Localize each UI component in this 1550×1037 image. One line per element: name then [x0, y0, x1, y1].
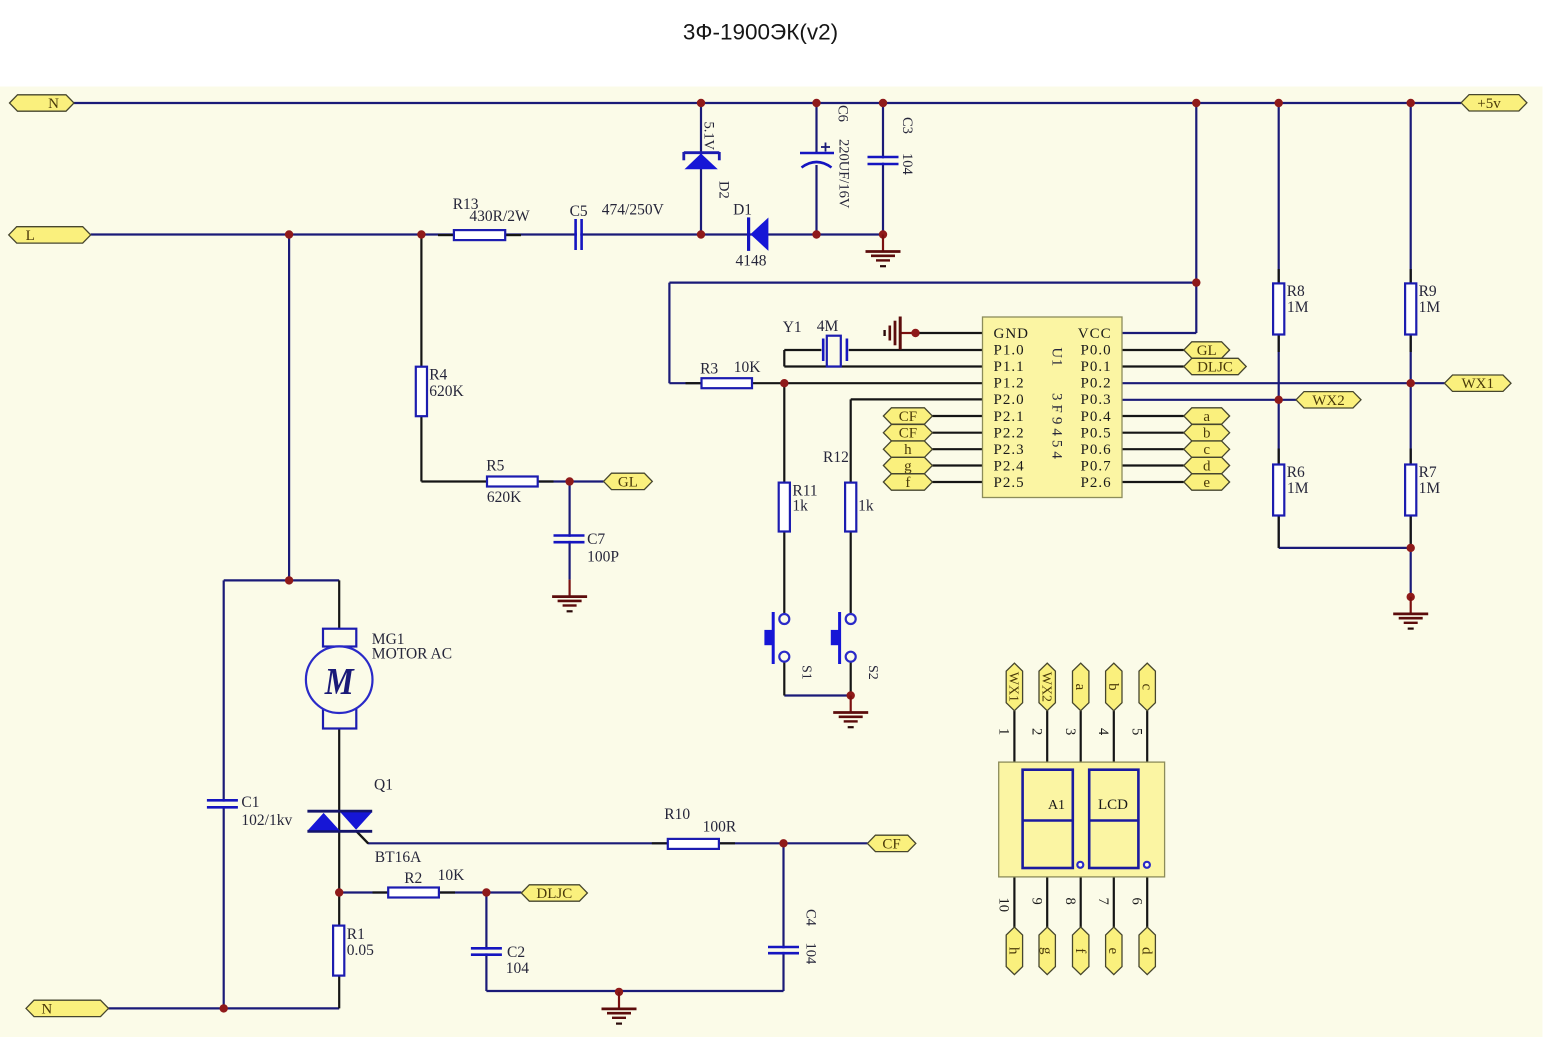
svg-text:h: h	[904, 442, 912, 458]
svg-text:P1.2: P1.2	[994, 376, 1025, 392]
svg-text:P0.6: P0.6	[1081, 442, 1112, 458]
svg-text:10: 10	[996, 898, 1012, 913]
svg-text:3Ф-1900ЭК(v2): 3Ф-1900ЭК(v2)	[683, 20, 838, 45]
svg-text:4: 4	[1095, 728, 1111, 736]
svg-text:VCC: VCC	[1078, 326, 1112, 342]
svg-text:P2.5: P2.5	[994, 475, 1025, 491]
svg-text:P2.0: P2.0	[994, 392, 1025, 408]
svg-text:WX2: WX2	[1038, 672, 1053, 702]
svg-text:N: N	[41, 1001, 52, 1017]
svg-text:g: g	[904, 459, 912, 475]
svg-text:GL: GL	[1197, 343, 1217, 359]
svg-text:P2.4: P2.4	[994, 458, 1025, 474]
svg-text:620K: 620K	[429, 383, 464, 400]
svg-text:C4: C4	[803, 909, 819, 927]
svg-text:M: M	[324, 661, 355, 703]
svg-text:1M: 1M	[1419, 299, 1441, 316]
svg-text:9: 9	[1029, 898, 1045, 905]
svg-text:3: 3	[1062, 728, 1078, 735]
svg-text:f: f	[1072, 948, 1088, 953]
svg-text:P2.2: P2.2	[994, 425, 1025, 441]
svg-text:e: e	[1203, 475, 1210, 491]
svg-text:f: f	[905, 475, 910, 491]
svg-text:4M: 4M	[817, 318, 839, 335]
svg-text:P0.5: P0.5	[1081, 425, 1112, 441]
svg-text:5: 5	[1129, 728, 1145, 735]
svg-text:3F9454: 3F9454	[1048, 393, 1064, 463]
svg-text:U1: U1	[1048, 348, 1064, 368]
svg-text:10K: 10K	[734, 359, 762, 376]
svg-text:R2: R2	[404, 870, 422, 887]
svg-text:h: h	[1006, 947, 1022, 955]
svg-text:CF: CF	[882, 836, 900, 852]
svg-text:R7: R7	[1419, 464, 1437, 481]
svg-text:8: 8	[1062, 898, 1078, 905]
svg-text:P0.2: P0.2	[1081, 376, 1112, 392]
svg-text:C3: C3	[899, 117, 915, 134]
svg-text:D1: D1	[733, 202, 752, 219]
svg-text:CF: CF	[899, 426, 917, 442]
svg-text:4148: 4148	[736, 253, 767, 270]
svg-text:d: d	[1203, 459, 1211, 475]
svg-text:C7: C7	[587, 531, 605, 548]
svg-text:R6: R6	[1287, 464, 1305, 481]
svg-text:C2: C2	[507, 944, 525, 961]
svg-text:5.1V: 5.1V	[700, 122, 716, 151]
svg-text:104: 104	[899, 153, 915, 176]
svg-text:6: 6	[1129, 898, 1145, 905]
svg-text:R8: R8	[1287, 283, 1305, 300]
svg-text:2: 2	[1029, 728, 1045, 735]
svg-text:474/250V: 474/250V	[602, 202, 665, 219]
svg-text:1k: 1k	[858, 498, 874, 515]
svg-text:Y1: Y1	[783, 319, 802, 336]
svg-text:DLJC: DLJC	[1197, 360, 1233, 376]
svg-text:R3: R3	[700, 361, 718, 378]
svg-text:S2: S2	[865, 665, 880, 680]
svg-text:C1: C1	[241, 794, 259, 811]
svg-text:1M: 1M	[1287, 299, 1309, 316]
svg-text:P2.3: P2.3	[994, 442, 1025, 458]
svg-text:R5: R5	[486, 458, 504, 475]
svg-text:D2: D2	[716, 181, 732, 199]
svg-text:e: e	[1105, 947, 1121, 954]
svg-text:1k: 1k	[792, 498, 808, 515]
svg-text:P2.6: P2.6	[1081, 475, 1112, 491]
svg-text:R12: R12	[823, 449, 849, 466]
svg-text:P1.0: P1.0	[994, 343, 1025, 359]
svg-text:100R: 100R	[703, 819, 737, 836]
svg-text:C6: C6	[834, 105, 850, 122]
svg-text:WX2: WX2	[1312, 393, 1345, 409]
svg-text:b: b	[1105, 683, 1121, 691]
svg-text:R9: R9	[1419, 283, 1437, 300]
svg-text:R4: R4	[429, 367, 447, 384]
svg-text:N: N	[48, 96, 59, 112]
svg-text:WX1: WX1	[1006, 672, 1021, 702]
svg-text:WX1: WX1	[1462, 376, 1495, 392]
svg-text:g: g	[1038, 947, 1054, 955]
svg-text:BT16A: BT16A	[375, 849, 422, 866]
svg-text:S1: S1	[799, 665, 814, 680]
svg-text:P1.1: P1.1	[994, 359, 1025, 375]
svg-text:c: c	[1203, 442, 1210, 458]
svg-text:620K: 620K	[487, 489, 522, 506]
svg-text:DLJC: DLJC	[536, 886, 572, 902]
svg-text:P0.7: P0.7	[1081, 458, 1112, 474]
svg-text:10K: 10K	[438, 867, 466, 884]
svg-text:LCD: LCD	[1098, 797, 1128, 813]
svg-text:P0.0: P0.0	[1081, 343, 1112, 359]
svg-text:+5v: +5v	[1477, 96, 1501, 112]
svg-text:P0.4: P0.4	[1081, 409, 1112, 425]
svg-text:P0.1: P0.1	[1081, 359, 1112, 375]
svg-text:A1: A1	[1048, 798, 1065, 813]
svg-text:C5: C5	[570, 203, 588, 220]
svg-text:CF: CF	[899, 409, 917, 425]
svg-text:0.05: 0.05	[347, 942, 374, 959]
svg-text:102/1kv: 102/1kv	[241, 812, 292, 829]
svg-text:P2.1: P2.1	[994, 409, 1025, 425]
svg-text:100P: 100P	[587, 549, 619, 566]
svg-text:GL: GL	[618, 474, 638, 490]
svg-text:GND: GND	[994, 326, 1030, 342]
svg-text:b: b	[1203, 426, 1211, 442]
svg-text:L: L	[26, 228, 35, 244]
svg-text:104: 104	[803, 943, 819, 966]
svg-text:220UF/16V: 220UF/16V	[836, 139, 852, 209]
svg-text:430R/2W: 430R/2W	[469, 208, 530, 225]
svg-text:a: a	[1203, 409, 1210, 425]
svg-text:104: 104	[506, 960, 530, 977]
svg-text:1M: 1M	[1287, 480, 1309, 497]
svg-text:c: c	[1138, 684, 1154, 691]
svg-text:R10: R10	[664, 806, 690, 823]
svg-text:R1: R1	[347, 926, 365, 943]
svg-text:d: d	[1138, 947, 1154, 955]
svg-text:1M: 1M	[1419, 480, 1441, 497]
svg-text:a: a	[1072, 684, 1088, 691]
svg-text:P0.3: P0.3	[1081, 392, 1112, 408]
svg-text:1: 1	[996, 728, 1012, 735]
svg-text:Q1: Q1	[374, 777, 393, 794]
svg-text:MOTOR AC: MOTOR AC	[372, 646, 452, 663]
svg-text:7: 7	[1095, 898, 1111, 905]
